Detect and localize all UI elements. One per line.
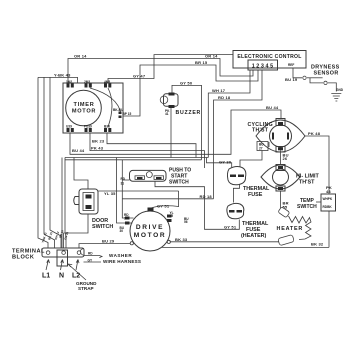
svg-text:PK 43: PK 43 bbox=[91, 146, 104, 151]
svg-text:GY 51: GY 51 bbox=[157, 204, 170, 209]
svg-text:BR 15: BR 15 bbox=[195, 60, 208, 65]
svg-text:SWITCH: SWITCH bbox=[92, 224, 113, 230]
svg-text:GY 47: GY 47 bbox=[133, 74, 146, 79]
svg-text:TH'ST: TH'ST bbox=[299, 180, 315, 186]
svg-text:U39: U39 bbox=[66, 125, 72, 129]
svg-text:MOTOR: MOTOR bbox=[134, 232, 166, 239]
svg-text:BU 44: BU 44 bbox=[266, 105, 279, 110]
svg-text:Y-BK 43: Y-BK 43 bbox=[54, 73, 71, 78]
svg-text:48: 48 bbox=[326, 189, 331, 194]
svg-text:GND: GND bbox=[336, 88, 344, 92]
svg-text:GY 30: GY 30 bbox=[219, 159, 232, 164]
svg-text:REF: REF bbox=[288, 63, 294, 67]
svg-text:WIRE HARNESS: WIRE HARNESS bbox=[103, 259, 141, 264]
svg-text:RD: RD bbox=[88, 251, 93, 255]
svg-text:56: 56 bbox=[184, 220, 188, 224]
svg-text:41: 41 bbox=[165, 112, 169, 116]
svg-text:BK 23: BK 23 bbox=[92, 139, 105, 144]
svg-text:GY 51: GY 51 bbox=[224, 224, 237, 229]
svg-text:SENSOR: SENSOR bbox=[314, 71, 339, 77]
svg-text:BLOCK: BLOCK bbox=[12, 255, 34, 261]
svg-text:BU 19: BU 19 bbox=[285, 77, 298, 82]
svg-text:L1: L1 bbox=[42, 273, 50, 280]
svg-text:1M2: 1M2 bbox=[66, 80, 72, 84]
svg-text:(HEATER): (HEATER) bbox=[241, 233, 267, 239]
svg-text:DRIVE: DRIVE bbox=[136, 224, 164, 231]
svg-text:HEATER: HEATER bbox=[277, 226, 304, 232]
svg-text:BK 32: BK 32 bbox=[311, 241, 324, 246]
svg-text:31: 31 bbox=[121, 181, 125, 185]
svg-text:BP 15: BP 15 bbox=[123, 112, 132, 116]
svg-text:STRAP: STRAP bbox=[78, 286, 94, 291]
svg-text:30: 30 bbox=[120, 229, 124, 233]
svg-text:RDBK: RDBK bbox=[323, 205, 333, 209]
svg-text:30: 30 bbox=[124, 217, 128, 221]
svg-text:BUZZER: BUZZER bbox=[176, 110, 202, 116]
svg-text:YL 35: YL 35 bbox=[104, 191, 116, 196]
svg-text:OR 14: OR 14 bbox=[74, 54, 87, 59]
svg-text:WH 17: WH 17 bbox=[212, 88, 226, 93]
svg-text:N: N bbox=[59, 273, 64, 280]
svg-text:2M3: 2M3 bbox=[84, 80, 90, 84]
svg-text:GY 50: GY 50 bbox=[180, 81, 193, 86]
svg-text:FU39: FU39 bbox=[84, 125, 92, 129]
svg-text:SWITCH: SWITCH bbox=[169, 180, 189, 186]
svg-text:FUSE: FUSE bbox=[248, 192, 263, 198]
svg-text:WASHER: WASHER bbox=[109, 253, 132, 258]
svg-text:PK 48: PK 48 bbox=[308, 131, 321, 136]
svg-text:B36: B36 bbox=[104, 125, 110, 129]
svg-text:BU 44: BU 44 bbox=[72, 148, 85, 153]
svg-text:ELECTRONIC CONTROL: ELECTRONIC CONTROL bbox=[237, 54, 301, 60]
svg-text:BU 29: BU 29 bbox=[102, 238, 115, 243]
svg-text:12345: 12345 bbox=[252, 64, 275, 70]
svg-text:TIMER: TIMER bbox=[74, 102, 95, 108]
svg-text:WHPK: WHPK bbox=[323, 197, 333, 201]
svg-text:RD 18: RD 18 bbox=[218, 95, 231, 100]
svg-text:OR 14: OR 14 bbox=[205, 54, 218, 59]
svg-text:RD 18: RD 18 bbox=[200, 194, 213, 199]
svg-text:BK 33: BK 33 bbox=[175, 237, 188, 242]
svg-text:26: 26 bbox=[283, 156, 288, 161]
svg-text:MOTOR: MOTOR bbox=[72, 109, 96, 115]
svg-text:4M5: 4M5 bbox=[104, 80, 110, 84]
svg-text:27: 27 bbox=[259, 147, 263, 151]
svg-text:L2: L2 bbox=[72, 273, 80, 280]
svg-text:55: 55 bbox=[170, 214, 174, 218]
svg-text:TH'ST: TH'ST bbox=[252, 127, 269, 133]
svg-text:SWITCH: SWITCH bbox=[297, 204, 317, 210]
svg-text:55: 55 bbox=[283, 204, 288, 209]
